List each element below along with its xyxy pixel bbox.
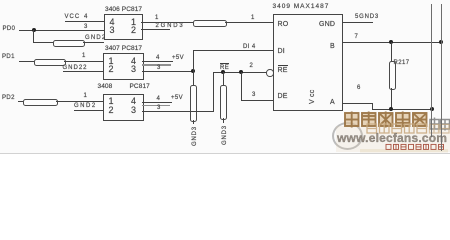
pin 1 (U3407) <box>109 57 114 66</box>
wire DE branch horizontal <box>241 100 274 101</box>
wire resistor to U3407 pin1 <box>64 61 103 62</box>
pin RO <box>278 21 289 28</box>
pin label 1 (RO) <box>251 15 255 21</box>
wire A to bus <box>372 109 432 110</box>
wire VCC to U3406 pin4 <box>65 21 104 22</box>
wire junction drop <box>33 30 34 42</box>
node VCC <box>65 14 81 20</box>
resistor R217 <box>389 61 396 90</box>
junction A-bus <box>430 107 434 111</box>
wire U3407 pin4 to +5V <box>142 61 173 62</box>
pin 3 (U3408) <box>131 106 136 115</box>
wire A horizontal <box>342 103 373 104</box>
pin DI <box>278 48 285 55</box>
pin label 1 <box>155 15 159 21</box>
pin label 6 <box>357 85 361 91</box>
resistor R-PD0 <box>53 40 85 47</box>
node RE label <box>220 63 229 71</box>
wire U3407 pin3 to node <box>142 71 193 72</box>
wire R217 top lead <box>391 42 392 61</box>
power +5V <box>171 95 183 101</box>
pin 2 (U3407) <box>109 65 114 74</box>
node GND22 <box>63 65 88 71</box>
junction PD0 <box>32 28 36 32</box>
junction A-R217 <box>389 107 393 111</box>
pin label 2 (RE) <box>250 63 254 69</box>
ground GND3 label <box>222 125 228 145</box>
wire U3407 pin2 stub GND22 <box>63 71 104 72</box>
pin A <box>330 99 335 106</box>
pin 4 (U3408) <box>131 97 136 106</box>
node 5GND3 <box>355 14 379 20</box>
wire RE riser <box>213 72 214 112</box>
wire resistor to U3409 RO <box>225 22 274 23</box>
watermark 世界 <box>430 118 450 131</box>
R217 label <box>394 60 410 66</box>
wire GND stub <box>342 22 373 23</box>
junction DI node <box>191 69 195 73</box>
resistor R-PD2 <box>23 99 58 106</box>
pin 4 (U3407) <box>131 57 136 66</box>
wire resistor to GND2 <box>83 42 104 43</box>
node PD2 <box>2 95 15 101</box>
pin label DI 4 <box>243 44 256 50</box>
pin 1 (U3406) <box>131 18 136 27</box>
wire U3408 pin3 to riser <box>142 111 213 112</box>
junction RE-DE <box>239 70 243 74</box>
node PD1 <box>2 54 15 60</box>
wire U3406 pin2 stub <box>141 29 170 30</box>
node PD0 <box>3 26 16 32</box>
wire R217 bottom lead <box>391 88 392 110</box>
watermark row1 电子发烧友 <box>0 0 450 154</box>
pin 3 (U3407) <box>131 65 136 74</box>
ghost line (scan artifact) <box>142 64 171 65</box>
pin DE <box>278 93 288 100</box>
watermark logo circle <box>332 122 363 150</box>
junction RE resistor <box>221 70 225 74</box>
pin label 3 <box>157 105 161 111</box>
ground GND3 label <box>192 126 198 146</box>
wire U3408 pin4 to +5V <box>142 102 172 103</box>
wire U3406 pin1 to resistor <box>141 22 193 23</box>
wire resistor to U3408 pin1 <box>56 101 103 102</box>
wire PD2 to resistor <box>18 101 23 102</box>
pin 2 (U3406) <box>131 26 136 35</box>
resistor R-RE pulldown lead <box>223 72 224 85</box>
wire PD0 to U3406 pin3 <box>19 30 104 31</box>
pin label 3 <box>84 24 88 30</box>
optocoupler U3408 PC817 <box>98 84 113 91</box>
transceiver U3409 MAX1487 <box>273 4 330 11</box>
pin 3 (U3406) <box>110 26 115 35</box>
pin 1 (U3408) <box>109 97 114 106</box>
wire resistor lead <box>193 120 194 124</box>
pin B <box>330 43 335 50</box>
pin GND <box>319 21 335 28</box>
wire B to bus <box>342 42 441 43</box>
wire RE horizontal <box>213 72 267 73</box>
resistor R-RE pulldown <box>220 85 227 120</box>
pin label 4 <box>157 96 161 102</box>
pin RE <box>278 65 288 74</box>
resistor R-RO <box>193 20 227 27</box>
wire U3408 pin2 stub <box>74 110 103 111</box>
node 2GND3 <box>156 23 185 29</box>
bottom scan line <box>0 153 450 154</box>
resistor R-DI pulldown <box>190 85 197 122</box>
optocoupler U3407 PC817 <box>105 46 142 53</box>
bus line B <box>441 4 442 151</box>
power +5V <box>172 55 184 61</box>
wire PD1 to resistor <box>19 61 34 62</box>
watermark www.elecfans.com <box>337 132 447 144</box>
wire DI to U3409 <box>193 50 274 51</box>
wire DI riser <box>193 50 194 85</box>
pin label 4 <box>156 55 160 61</box>
wire A step down <box>372 103 373 109</box>
wire resistor lead <box>223 118 224 123</box>
pin label 3 (DE) <box>252 92 256 98</box>
pin Vcc <box>309 89 316 103</box>
ghost line (scan artifact) <box>142 105 170 106</box>
junction B-bus <box>439 40 443 44</box>
optocoupler U3406 PC817 <box>105 7 142 14</box>
resistor R-PD1 <box>34 59 66 66</box>
RE bubble <box>266 69 274 77</box>
bus line A <box>431 4 432 137</box>
watermark row2 <box>367 124 449 133</box>
watermark red row <box>386 144 444 149</box>
pin 2 (U3408) <box>109 106 114 115</box>
pin label 4 <box>84 14 88 20</box>
pin label 1 <box>82 53 86 59</box>
junction B-R217 <box>389 40 393 44</box>
node GND2 <box>85 35 106 41</box>
pin label 3 <box>157 65 161 71</box>
wire DE branch vertical <box>241 72 242 100</box>
wire to resistor <box>33 42 53 43</box>
pin label 7 <box>355 34 359 40</box>
pin 4 (U3406) <box>110 18 115 27</box>
pin label 1 <box>84 93 88 99</box>
node GND2 <box>74 103 97 109</box>
